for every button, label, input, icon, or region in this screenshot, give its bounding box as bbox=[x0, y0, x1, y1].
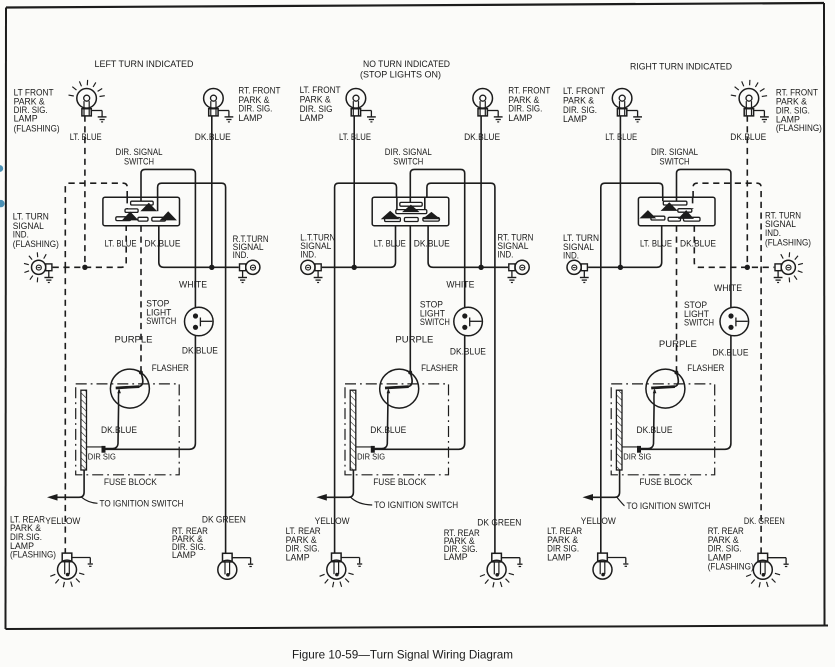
svg-text:TO IGNITION SWITCH: TO IGNITION SWITCH bbox=[374, 500, 458, 510]
svg-text:DIR SIG: DIR SIG bbox=[88, 451, 116, 461]
svg-text:(FLASHING): (FLASHING) bbox=[776, 123, 822, 133]
svg-text:RIGHT TURN INDICATED: RIGHT TURN INDICATED bbox=[630, 62, 732, 72]
svg-text:FLASHER: FLASHER bbox=[421, 363, 458, 373]
svg-text:DK GREEN: DK GREEN bbox=[477, 517, 521, 527]
svg-text:FUSE BLOCK: FUSE BLOCK bbox=[639, 477, 692, 487]
svg-text:LT. BLUE: LT. BLUE bbox=[70, 132, 102, 142]
svg-text:YELLOW: YELLOW bbox=[581, 516, 616, 526]
svg-text:DK.BLUE: DK.BLUE bbox=[370, 425, 406, 435]
svg-text:RT. FRONT: RT. FRONT bbox=[238, 85, 280, 95]
svg-text:LAMP: LAMP bbox=[238, 113, 262, 123]
svg-text:WHITE: WHITE bbox=[179, 280, 207, 290]
svg-text:(FLASHING): (FLASHING) bbox=[14, 124, 60, 134]
svg-text:LT. BLUE: LT. BLUE bbox=[640, 239, 672, 249]
svg-text:LAMP: LAMP bbox=[14, 114, 38, 124]
svg-text:IND.: IND. bbox=[233, 250, 249, 260]
svg-text:PURPLE: PURPLE bbox=[115, 334, 153, 344]
svg-text:LAMP: LAMP bbox=[563, 114, 587, 124]
svg-text:FUSE BLOCK: FUSE BLOCK bbox=[104, 477, 157, 487]
svg-text:DK.BLUE: DK.BLUE bbox=[450, 346, 486, 356]
svg-text:DIR SIG: DIR SIG bbox=[357, 451, 385, 461]
svg-text:LAMP: LAMP bbox=[300, 113, 324, 123]
svg-text:WHITE: WHITE bbox=[714, 283, 742, 293]
svg-text:LT. BLUE: LT. BLUE bbox=[339, 132, 371, 142]
svg-text:SWITCH: SWITCH bbox=[124, 157, 154, 167]
svg-text:DK.BLUE: DK.BLUE bbox=[680, 239, 716, 249]
svg-text:FUSE BLOCK: FUSE BLOCK bbox=[373, 477, 426, 487]
svg-text:DIR. SIGNAL: DIR. SIGNAL bbox=[116, 147, 163, 157]
svg-text:DK. GREEN: DK. GREEN bbox=[744, 516, 785, 526]
svg-text:DIR. SIGNAL: DIR. SIGNAL bbox=[385, 147, 432, 157]
svg-text:IND.: IND. bbox=[13, 229, 29, 239]
svg-text:TO IGNITION SWITCH: TO IGNITION SWITCH bbox=[100, 499, 184, 509]
svg-text:(FLASHING): (FLASHING) bbox=[10, 550, 56, 560]
svg-text:(FLASHING): (FLASHING) bbox=[708, 562, 754, 572]
svg-text:LT. TURN: LT. TURN bbox=[13, 211, 49, 221]
svg-text:LAMP: LAMP bbox=[508, 113, 532, 123]
svg-text:PURPLE: PURPLE bbox=[659, 339, 697, 349]
svg-text:TO IGNITION SWITCH: TO IGNITION SWITCH bbox=[627, 501, 711, 511]
svg-text:WHITE: WHITE bbox=[446, 280, 474, 290]
svg-text:DK.BLUE: DK.BLUE bbox=[101, 425, 137, 435]
svg-text:IND.: IND. bbox=[497, 250, 513, 260]
svg-text:LAMP: LAMP bbox=[547, 552, 571, 562]
svg-text:SWITCH: SWITCH bbox=[660, 157, 690, 167]
svg-text:YELLOW: YELLOW bbox=[45, 516, 80, 526]
svg-text:DK GREEN: DK GREEN bbox=[202, 515, 246, 525]
svg-text:DIR SIG: DIR SIG bbox=[623, 451, 651, 461]
svg-text:LT. BLUE: LT. BLUE bbox=[605, 132, 637, 142]
svg-text:IND.: IND. bbox=[563, 250, 579, 260]
svg-text:LAMP: LAMP bbox=[444, 552, 468, 562]
svg-text:(FLASHING): (FLASHING) bbox=[13, 239, 59, 249]
svg-text:DK.BLUE: DK.BLUE bbox=[145, 239, 181, 249]
svg-text:LT. BLUE: LT. BLUE bbox=[374, 239, 406, 249]
svg-text:IND.: IND. bbox=[765, 228, 781, 238]
svg-text:(FLASHING): (FLASHING) bbox=[765, 238, 811, 248]
svg-text:(STOP LIGHTS ON): (STOP LIGHTS ON) bbox=[360, 70, 441, 80]
svg-text:RT. FRONT: RT. FRONT bbox=[508, 85, 550, 95]
svg-text:DK.BLUE: DK.BLUE bbox=[195, 132, 231, 142]
svg-text:LAMP: LAMP bbox=[286, 552, 310, 562]
svg-text:DIR. SIGNAL: DIR. SIGNAL bbox=[651, 147, 698, 157]
svg-text:FLASHER: FLASHER bbox=[152, 363, 189, 373]
svg-text:DK.BLUE: DK.BLUE bbox=[414, 239, 450, 249]
svg-text:DK.BLUE: DK.BLUE bbox=[637, 425, 673, 435]
svg-text:SWITCH: SWITCH bbox=[146, 316, 176, 326]
svg-text:LT. BLUE: LT. BLUE bbox=[105, 239, 137, 249]
svg-text:NO TURN INDICATED: NO TURN INDICATED bbox=[363, 59, 450, 69]
svg-text:PURPLE: PURPLE bbox=[395, 334, 433, 344]
svg-text:SWITCH: SWITCH bbox=[420, 317, 450, 327]
svg-text:YELLOW: YELLOW bbox=[315, 516, 350, 526]
svg-text:LEFT TURN INDICATED: LEFT TURN INDICATED bbox=[95, 59, 194, 69]
svg-text:LAMP: LAMP bbox=[172, 550, 196, 560]
svg-text:SWITCH: SWITCH bbox=[393, 157, 423, 167]
svg-text:DK.BLUE: DK.BLUE bbox=[182, 345, 218, 355]
svg-text:SWITCH: SWITCH bbox=[684, 318, 714, 328]
svg-text:FLASHER: FLASHER bbox=[687, 363, 724, 373]
svg-text:DK.BLUE: DK.BLUE bbox=[464, 132, 500, 142]
svg-text:IND.: IND. bbox=[300, 250, 316, 260]
svg-text:DK.BLUE: DK.BLUE bbox=[730, 132, 766, 142]
svg-text:Figure 10-59—Turn Signal Wirin: Figure 10-59—Turn Signal Wiring Diagram bbox=[292, 648, 513, 662]
